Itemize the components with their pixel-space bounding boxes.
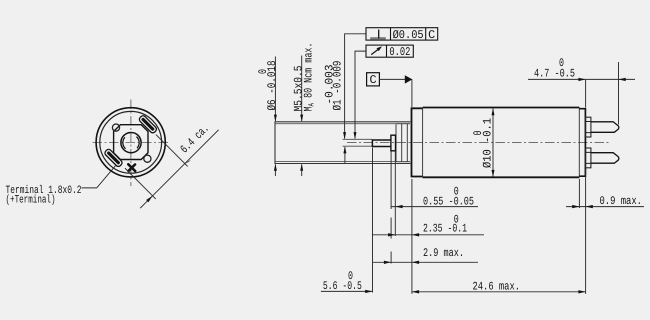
arrow Ø6 bottom	[274, 164, 277, 171]
terminal top-right slot	[141, 117, 155, 131]
ext cap face	[585, 169, 587, 294]
arrow Ø1 bottom	[343, 146, 346, 153]
thread root line bottom	[275, 161, 396, 163]
bearing boss circle	[121, 133, 141, 153]
leader terminal	[82, 165, 116, 188]
svg-text:C: C	[369, 73, 376, 87]
ext shaft tip	[372, 148, 374, 293]
svg-text:MA 80 Ncm max.: MA 80 Ncm max.	[302, 43, 316, 112]
svg-text:0.55 -0.05: 0.55 -0.05	[423, 196, 474, 209]
svg-text:Ø0.05: Ø0.05	[393, 28, 424, 42]
leader Ø1 + frame1 attach	[345, 34, 366, 139]
arrow Ø10 top	[492, 108, 495, 115]
arrow 24.6 right	[578, 290, 585, 293]
terminal top-right outer	[138, 115, 157, 134]
collar step vertical 1	[401, 124, 403, 162]
washer	[391, 135, 396, 151]
arrow 0.9 right	[586, 205, 593, 208]
arrow 2.9 left	[384, 261, 391, 264]
terminal bottom-left outer	[104, 148, 123, 167]
svg-text:0.02: 0.02	[389, 45, 410, 59]
leader Ø1 bottom tail	[344, 147, 346, 163]
end cap	[579, 109, 585, 177]
arrow 4.7 right	[619, 78, 626, 81]
body rear face	[578, 108, 580, 178]
collar step vertical 2	[406, 124, 408, 162]
arrow 4.7 left	[578, 78, 585, 81]
centerline horizontal	[93, 142, 170, 144]
terminal tab lower	[591, 153, 619, 164]
frame perpendicularity	[366, 28, 438, 40]
bearing flange octagon	[114, 125, 148, 160]
terminal base lower inner lines	[586, 152, 591, 163]
polarity X mark	[128, 164, 135, 171]
end cap inner circle	[100, 111, 162, 173]
ext line 4.7 right	[618, 62, 620, 125]
ext washer left dashed lower	[390, 218, 392, 239]
extension line upper (from TR terminal)	[156, 135, 188, 167]
motor flange ring	[412, 108, 423, 176]
datum C box	[367, 73, 380, 86]
ext line 4.7 left	[585, 80, 587, 108]
screw hole top-left	[112, 124, 119, 131]
arrow Ø10 bottom	[492, 170, 495, 177]
arrow Ø6 top	[274, 115, 277, 122]
ext body rear face	[578, 179, 580, 208]
dim line 4.7	[528, 78, 635, 80]
dim 0.9 line	[566, 206, 644, 208]
arrow 2.35 right	[412, 233, 419, 236]
svg-text:Ø6 -0.018: Ø6 -0.018	[266, 60, 279, 110]
arrow Ø1 top	[343, 132, 346, 139]
arrow M5.5 bottom	[300, 164, 303, 171]
arrow 0.55	[395, 205, 402, 208]
ext washer right	[394, 152, 396, 237]
dim 2.35 line	[372, 234, 484, 236]
svg-text:4.7 -0.5: 4.7 -0.5	[534, 68, 575, 81]
arrow 0.9 left	[572, 205, 579, 208]
leader Ø6	[274, 57, 276, 177]
dim Ø10 line inside body	[492, 109, 494, 177]
collar top line	[396, 123, 410, 125]
arrow 2.9 right	[412, 261, 419, 264]
ext washer left	[390, 152, 392, 210]
datum leader	[379, 78, 405, 80]
frame runout	[366, 45, 413, 57]
bearing bore arc right	[136, 137, 139, 149]
motor body outline	[423, 108, 580, 178]
perpendicularity symbol	[370, 37, 386, 39]
collar bottom line	[396, 161, 410, 163]
svg-text:24.6 max.: 24.6 max.	[473, 281, 521, 294]
terminal base upper	[586, 117, 591, 137]
arrow M5.5 top	[300, 115, 303, 122]
terminal tab upper	[591, 122, 619, 133]
threaded sleeve outline	[275, 122, 410, 164]
axis centerline	[347, 142, 610, 144]
extension line lower (from BL terminal)	[125, 168, 156, 199]
svg-text:(+Terminal): (+Terminal)	[6, 194, 56, 207]
arrow 5.6	[365, 290, 372, 293]
runout arrow symbol	[371, 50, 378, 55]
leader M5.5	[301, 56, 303, 177]
svg-text:0.9 max.: 0.9 max.	[600, 195, 643, 208]
runout symbol head	[377, 46, 383, 51]
thread runout vertical	[395, 124, 397, 161]
svg-text:2.35 -0.1: 2.35 -0.1	[423, 223, 467, 236]
terminal bottom-left slot	[106, 151, 120, 165]
arrow 2.35 left	[388, 233, 395, 236]
svg-text:Ø1 -0.009: Ø1 -0.009	[331, 60, 344, 110]
centerline vertical	[130, 100, 132, 187]
terminal base upper inner lines	[586, 122, 591, 133]
arrow upper 6.4	[185, 160, 192, 164]
leader runout frame2	[355, 51, 366, 138]
svg-text:5.6 -0.5: 5.6 -0.5	[323, 280, 362, 293]
datum triangle	[405, 75, 413, 83]
bore line top	[343, 138, 373, 140]
svg-text:C: C	[428, 28, 435, 42]
bearing bore arc left	[123, 137, 126, 149]
arrow runout	[354, 132, 357, 139]
shaft outline	[372, 139, 390, 147]
dim 2.9 line	[373, 261, 478, 263]
ext body front face	[411, 179, 413, 294]
datum extension line	[411, 79, 413, 107]
bore line bottom	[343, 145, 373, 147]
motor housing outer circle	[96, 108, 165, 177]
flange ring inner vertical	[422, 108, 424, 178]
arrow lower 6.4	[146, 196, 153, 203]
thread root line top	[275, 123, 396, 125]
dim 0.55 line	[391, 206, 478, 208]
screw hole bottom-right	[144, 155, 151, 162]
terminal base lower	[586, 148, 591, 168]
svg-text:2.9 max.: 2.9 max.	[423, 247, 464, 260]
dim 24.6 line	[412, 291, 586, 293]
dimension line 6.4	[140, 130, 218, 208]
svg-text:Ø10 -0.1: Ø10 -0.1	[481, 118, 494, 168]
dim 5.6 line	[321, 290, 373, 292]
arrow 24.6 left	[412, 290, 419, 293]
